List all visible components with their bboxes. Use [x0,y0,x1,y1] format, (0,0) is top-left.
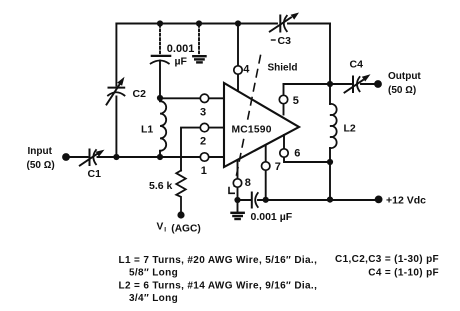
svg-text:C1,C2,C3 = (1-30) pF: C1,C2,C3 = (1-30) pF [335,254,439,265]
capacitor C3 (1-30 pF trimmer, in top rail) [270,13,299,48]
svg-text:C2: C2 [133,88,147,100]
svg-text:5: 5 [293,95,299,107]
svg-text:V: V [157,222,164,233]
svg-text:+12 Vdc: +12 Vdc [386,195,426,207]
wire pin 3 lead [160,97,224,99]
svg-text:L2 = 6 Turns, #14 AWG Wire, 9/: L2 = 6 Turns, #14 AWG Wire, 9/16″ Dia., [119,280,318,291]
output terminal [374,80,382,88]
pin 2 [200,123,209,147]
svg-text:L1: L1 [141,124,153,136]
pin 7 [262,161,281,173]
wire pin 6 lead [284,135,330,162]
label Output (50 ohm) [388,71,421,96]
svg-text:1: 1 [201,165,207,177]
svg-text:Shield: Shield [268,63,298,74]
caption L1 spec line 2 [129,267,178,278]
capacitor C2 (1-30 pF trimmer) [107,77,147,105]
inductor L1 [141,98,166,157]
capacitor C1 (1-30 pF trimmer) [80,150,105,181]
label Shield [268,63,298,74]
svg-text:(50 Ω): (50 Ω) [27,160,55,171]
capacitor 0.001 uF (bottom bypass) [251,193,293,223]
caption C4 value [368,267,439,278]
terminal +12 Vdc [375,196,383,204]
svg-text:7: 7 [275,161,281,173]
pin 5 [279,95,299,107]
inductor L2 [330,84,356,200]
pin 4 [234,64,251,76]
terminal V1 AGC [177,211,184,218]
wire top rail [116,23,330,25]
node junction top rail at ground stub [196,20,202,26]
capacitor C4 (1-10 pF trimmer) [345,59,371,93]
svg-text:C4: C4 [350,59,364,71]
svg-text:2: 2 [200,135,206,147]
node junction pin7 / bottom rail [263,197,269,203]
ground (top, chassis) [193,56,205,62]
svg-text:Input: Input [28,146,53,157]
svg-text:C3: C3 [278,35,292,47]
node junction L2 / pin 6 [327,159,333,165]
node junction pin8 / bottom rail [234,197,240,203]
svg-text:4: 4 [243,64,250,76]
node junction top rail at 0.001uF [157,20,163,26]
capacitor 0.001 uF (top bypass) [151,25,195,97]
svg-text:L1 = 7 Turns, #20 AWG Wire, 5/: L1 = 7 Turns, #20 AWG Wire, 5/16″ Dia., [119,255,318,266]
input terminal [62,153,70,161]
caption L2 spec line 2 [129,293,178,304]
label V1 (AGC) [157,222,201,235]
svg-text:I: I [164,227,166,234]
wire pin 4 stub [237,24,239,92]
caption L1 spec line 1 [119,255,318,266]
wire left rail vertical [115,24,117,158]
node junction top rail at pin 4 [235,20,241,26]
svg-text:5.6 k: 5.6 k [149,180,173,192]
svg-text:MC1590: MC1590 [232,125,272,136]
svg-text:Output: Output [388,71,421,82]
shield dashed line [229,56,261,194]
svg-text:µF: µF [175,55,188,67]
wire pin 7 stub [265,145,267,199]
wire input line [66,156,224,158]
ground (bottom, below pin 8) [232,200,244,219]
svg-text:6: 6 [294,147,300,159]
wire output line [284,83,375,85]
pin 1 [200,153,208,177]
wire pin 2 lead [181,128,224,171]
caption C1 C2 C3 value [335,254,439,265]
wire bottom rail [238,199,375,201]
node junction L2 / bottom rail [327,197,333,203]
label +12 Vdc [386,195,426,207]
svg-text:(AGC): (AGC) [171,224,200,235]
node junction input line / left rail [113,154,119,160]
label Input (50 ohm) [27,146,55,171]
svg-text:C4 = (1-10) pF: C4 = (1-10) pF [368,267,439,278]
wire pin 5 stub [283,84,285,115]
svg-text:C1: C1 [88,168,102,180]
svg-text:3: 3 [200,106,206,118]
svg-text:L2: L2 [344,123,356,135]
pin 8 [233,177,251,189]
pin 6 [280,147,301,159]
svg-text:8: 8 [245,177,251,189]
svg-text:(50 Ω): (50 Ω) [388,85,416,96]
svg-text:0.001: 0.001 [167,43,195,55]
node junction L1 top / pin3 [157,95,163,101]
pin 3 [200,94,209,118]
svg-text:5/8″ Long: 5/8″ Long [129,267,178,278]
op-amp U1 MC1590 triangle [224,83,299,167]
wire right corner vertical [329,24,331,85]
resistor R1 5.6k [149,171,186,215]
svg-text:3/4″ Long: 3/4″ Long [129,293,178,304]
node junction input line / L1 [157,154,163,160]
svg-text:0.001 µF: 0.001 µF [251,211,293,223]
label MC1590 [230,122,275,136]
caption L2 spec line 1 [119,280,318,291]
node output junction [327,81,333,87]
wire dotted stub to top ground [198,25,200,55]
wire pin 8 stub [237,160,239,200]
